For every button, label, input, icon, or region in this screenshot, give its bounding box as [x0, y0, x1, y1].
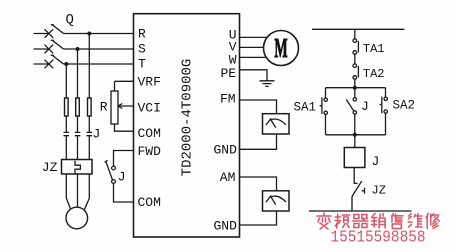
svg-text:R: R	[100, 100, 108, 115]
svg-text:T: T	[138, 57, 146, 72]
svg-text:R: R	[138, 27, 146, 42]
svg-text:PE: PE	[221, 66, 237, 81]
svg-text:VCI: VCI	[138, 101, 161, 116]
svg-text:COM: COM	[138, 126, 161, 141]
svg-text:GND: GND	[214, 142, 238, 157]
svg-text:M: M	[274, 33, 287, 63]
svg-text:AM: AM	[220, 170, 236, 185]
svg-text:SA2: SA2	[393, 99, 416, 113]
svg-text:VRF: VRF	[138, 74, 161, 89]
svg-text:Q: Q	[66, 12, 74, 28]
svg-text:JZ: JZ	[42, 160, 58, 175]
svg-text:TA1: TA1	[363, 42, 385, 56]
svg-text:J: J	[361, 99, 369, 114]
svg-text:TA2: TA2	[363, 67, 385, 81]
svg-text:FM: FM	[220, 91, 236, 106]
svg-text:J: J	[93, 127, 101, 142]
svg-text:FWD: FWD	[138, 144, 162, 159]
svg-text:COM: COM	[138, 195, 161, 210]
svg-text:15515598858: 15515598858	[331, 228, 426, 247]
svg-text:J: J	[118, 170, 126, 185]
svg-text:TD2000-4T0900G: TD2000-4T0900G	[180, 59, 196, 177]
svg-text:SA1: SA1	[293, 100, 316, 114]
svg-text:S: S	[138, 42, 146, 57]
svg-text:GND: GND	[214, 219, 238, 234]
svg-text:JZ: JZ	[372, 184, 386, 198]
svg-text:J: J	[372, 154, 380, 169]
